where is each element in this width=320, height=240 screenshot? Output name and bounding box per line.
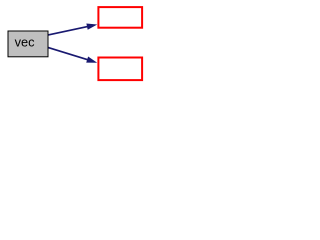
node vec (gray box) — [8, 31, 48, 57]
node bottom (red box) — [98, 58, 142, 81]
wire: edge vec->bottom node — [48, 48, 87, 60]
arrowhead top — [86, 24, 97, 30]
wire: edge vec->top node — [48, 27, 87, 35]
background — [0, 0, 149, 88]
arrowhead bottom — [86, 57, 97, 63]
node top (red box) — [98, 7, 142, 28]
svg-text:vec: vec — [15, 34, 36, 49]
